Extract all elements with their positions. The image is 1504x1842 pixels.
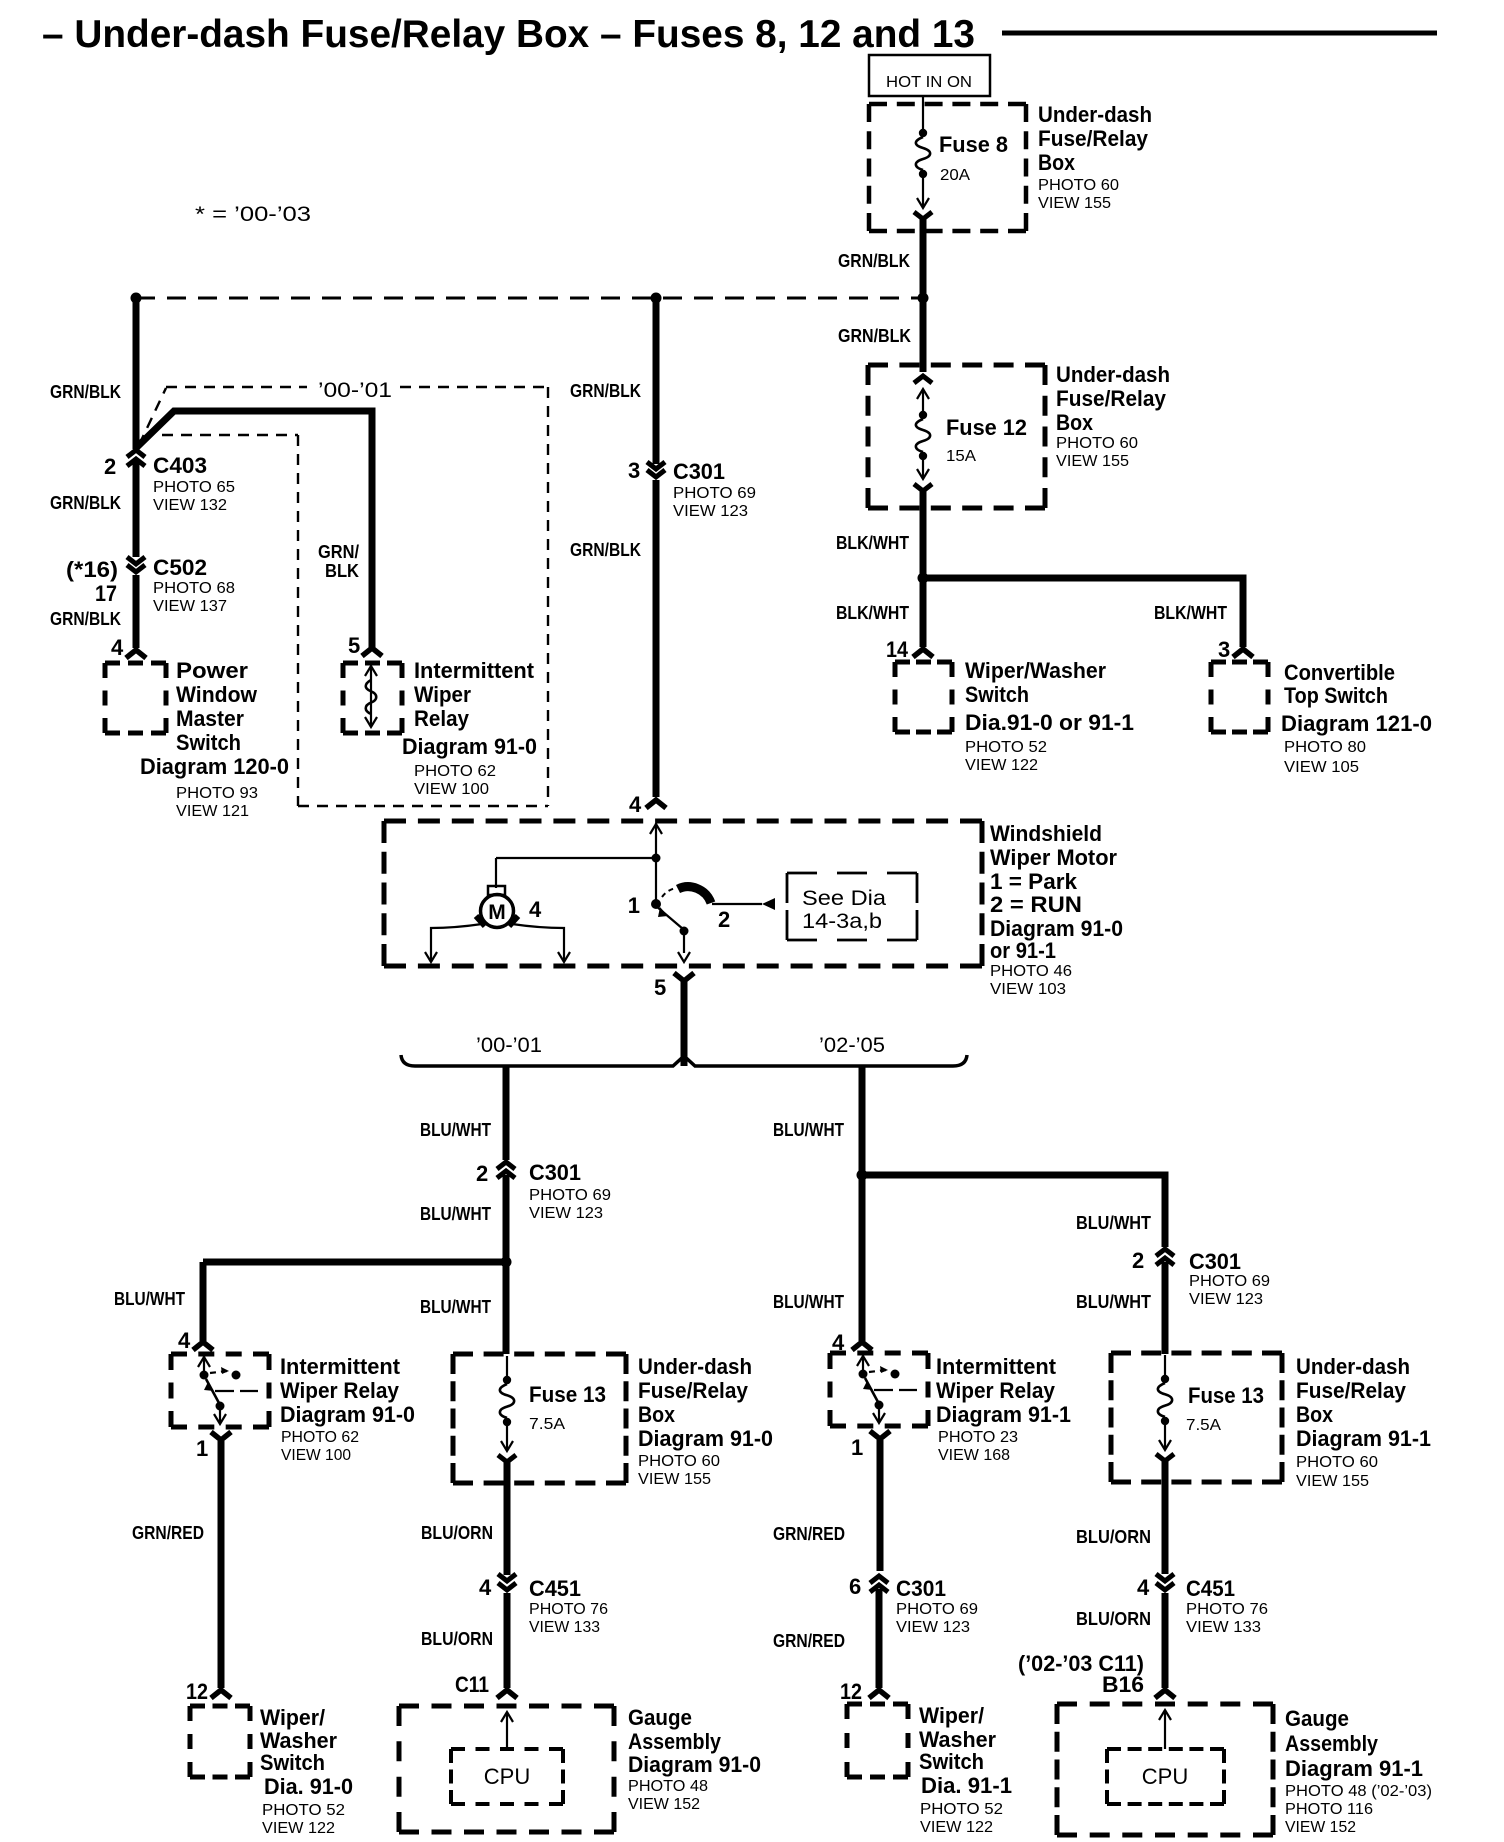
svg-text:VIEW 155: VIEW 155 <box>638 1471 711 1488</box>
svg-text:C403: C403 <box>153 453 207 478</box>
svg-text:Diagram 121-0: Diagram 121-0 <box>1281 711 1432 736</box>
connector C451 pin 4 (left) <box>479 1574 516 1600</box>
svg-text:5: 5 <box>654 975 666 1000</box>
svg-text:Fuse/Relay: Fuse/Relay <box>1056 386 1167 411</box>
svg-text:17: 17 <box>95 581 117 606</box>
svg-text:7.5A: 7.5A <box>1186 1417 1221 1434</box>
svg-text:Window: Window <box>176 682 258 707</box>
svg-text:PHOTO 46: PHOTO 46 <box>990 963 1072 980</box>
svg-text:C451: C451 <box>529 1576 581 1601</box>
fuse 13 (left) value labels <box>529 1382 606 1433</box>
svg-text:Box: Box <box>1296 1402 1334 1427</box>
see dia 14-3a,b box <box>787 873 917 940</box>
wire BLU/WHT branch to relay <box>203 1259 506 1266</box>
svg-text:GRN/RED: GRN/RED <box>773 1524 845 1544</box>
wire GRN/BLK label to relay <box>318 542 360 658</box>
power source label HOT IN ON <box>869 55 990 96</box>
svg-text:PHOTO 69: PHOTO 69 <box>896 1601 978 1618</box>
svg-text:C301: C301 <box>673 459 725 484</box>
pin 5 arrow into intermittent wiper relay <box>362 648 382 656</box>
connector C301 label (pin 3) <box>673 459 756 520</box>
svg-text:C301: C301 <box>529 1160 581 1185</box>
wire BLU/WHT split right branch <box>773 1066 862 1341</box>
svg-text:C502: C502 <box>153 555 207 580</box>
svg-text:C11: C11 <box>455 1672 489 1697</box>
svg-text:CPU: CPU <box>1142 1764 1188 1789</box>
under-dash fuse/relay box (fuse 13 left) dashed box <box>453 1354 626 1483</box>
fuse 12 value labels <box>946 415 1027 465</box>
svg-text:VIEW 152: VIEW 152 <box>628 1796 700 1813</box>
B16 arrow into gauge assembly B <box>1155 1690 1175 1698</box>
svg-text:VIEW 168: VIEW 168 <box>938 1447 1010 1464</box>
svg-text:1: 1 <box>851 1435 863 1460</box>
svg-text:Diagram 91-0: Diagram 91-0 <box>628 1752 761 1777</box>
svg-text:PHOTO 60: PHOTO 60 <box>1296 1454 1378 1471</box>
svg-text:1: 1 <box>196 1436 208 1461</box>
motor ground lead left <box>425 924 482 962</box>
svg-text:’02-’05: ’02-’05 <box>819 1034 885 1057</box>
intermittent wiper relay A switch symbol <box>198 1356 258 1424</box>
svg-text:12: 12 <box>186 1679 208 1704</box>
svg-text:PHOTO 69: PHOTO 69 <box>673 485 756 502</box>
connector C301 label (left branch) <box>529 1160 611 1222</box>
under-dash fuse/relay box (fuse 12) dashed box <box>868 365 1045 508</box>
svg-text:Dia. 91-0: Dia. 91-0 <box>264 1774 353 1799</box>
connector C502 label <box>153 555 235 615</box>
svg-text:Relay: Relay <box>414 706 470 731</box>
svg-text:4: 4 <box>479 1575 492 1600</box>
svg-text:GRN/BLK: GRN/BLK <box>570 540 641 560</box>
switch lower contact lead <box>656 906 690 962</box>
svg-text:VIEW 122: VIEW 122 <box>262 1820 335 1837</box>
svg-text:VIEW 155: VIEW 155 <box>1038 195 1111 212</box>
svg-text:VIEW 133: VIEW 133 <box>1186 1619 1261 1636</box>
C11 arrow into gauge assembly <box>497 1690 517 1698</box>
convertible top switch box <box>1211 662 1268 732</box>
switch arm lead to node 2 <box>712 898 775 932</box>
svg-text:VIEW 155: VIEW 155 <box>1056 453 1129 470</box>
svg-text:Wiper Relay: Wiper Relay <box>936 1378 1056 1403</box>
svg-text:GRN/RED: GRN/RED <box>132 1523 204 1543</box>
fuse 13 (right) value labels <box>1186 1383 1264 1434</box>
svg-text:Diagram 91-0: Diagram 91-0 <box>280 1402 415 1427</box>
svg-text:2 = RUN: 2 = RUN <box>990 892 1082 917</box>
pin 12 arrow into wiper/washer switch A <box>211 1690 231 1698</box>
wiper/washer switch B label <box>919 1703 1012 1836</box>
connector C451 label (left) <box>529 1576 608 1636</box>
svg-text:PHOTO 48 (’02-’03): PHOTO 48 (’02-’03) <box>1285 1783 1432 1800</box>
svg-text:Switch: Switch <box>965 682 1029 707</box>
svg-text:Fuse/Relay: Fuse/Relay <box>638 1378 749 1403</box>
svg-text:Top Switch: Top Switch <box>1284 683 1388 708</box>
pin 3 arrow into convertible top switch <box>1233 649 1253 657</box>
svg-text:– Under-dash Fuse/Relay Box –: – Under-dash Fuse/Relay Box – Fuses 8, 1… <box>42 13 975 56</box>
under-dash fuse/relay box (fuse 13 right) dashed box <box>1111 1353 1282 1482</box>
svg-text:M: M <box>488 901 506 924</box>
svg-text:VIEW 137: VIEW 137 <box>153 598 227 615</box>
wire GRN/BLK C301 to wiper motor pin 4 <box>570 480 656 817</box>
intermittent wiper relay B label <box>936 1354 1071 1464</box>
wire GRN/RED relay A to wiper washer switch <box>132 1441 221 1704</box>
intermittent wiper relay B box <box>830 1353 928 1426</box>
svg-text:CPU: CPU <box>484 1764 530 1789</box>
svg-text:PHOTO 52: PHOTO 52 <box>262 1802 345 1819</box>
svg-text:BLU/WHT: BLU/WHT <box>1076 1213 1151 1233</box>
svg-text:PHOTO 60: PHOTO 60 <box>638 1453 720 1470</box>
under-dash fuse/relay box (fuse 8) label <box>1038 102 1152 212</box>
svg-text:5: 5 <box>348 633 360 658</box>
svg-text:Diagram 91-0: Diagram 91-0 <box>402 734 537 759</box>
svg-text:Switch: Switch <box>919 1749 984 1774</box>
connector C301 pin 2 (left) <box>476 1161 515 1186</box>
svg-text:VIEW 122: VIEW 122 <box>920 1819 993 1836</box>
svg-text:Diagram 91-1: Diagram 91-1 <box>1296 1426 1431 1451</box>
fuse 13 (left) <box>498 1356 516 1462</box>
convertible top switch label <box>1281 660 1432 776</box>
svg-text:See Dia: See Dia <box>802 887 886 910</box>
svg-text:BLU/WHT: BLU/WHT <box>773 1292 844 1312</box>
svg-text:BLU/ORN: BLU/ORN <box>1076 1609 1151 1629</box>
svg-text:Master: Master <box>176 706 244 731</box>
svg-text:VIEW 123: VIEW 123 <box>1189 1291 1263 1308</box>
fuse 13 (right) <box>1156 1355 1174 1461</box>
wiper motor pin 5 wire <box>654 973 694 1066</box>
gauge assembly A box <box>399 1706 614 1832</box>
intermittent wiper relay coil symbol <box>365 666 377 727</box>
wire from HOT IN ON to fuse 8 <box>922 96 924 133</box>
junction node BLK/WHT <box>918 573 929 584</box>
svg-text:Diagram 91-1: Diagram 91-1 <box>1285 1756 1423 1781</box>
switch dashed travel arc <box>662 888 676 897</box>
svg-text:Fuse 13: Fuse 13 <box>529 1382 606 1407</box>
svg-text:BLU/WHT: BLU/WHT <box>420 1297 491 1317</box>
svg-text:VIEW 132: VIEW 132 <box>153 497 227 514</box>
svg-text:Under-dash: Under-dash <box>1296 1354 1410 1379</box>
gauge assembly B box <box>1057 1704 1273 1835</box>
svg-text:VIEW 123: VIEW 123 <box>896 1619 970 1636</box>
wire BLU/WHT C301 to fuse 13 <box>420 1175 506 1354</box>
svg-text:2: 2 <box>104 454 116 479</box>
svg-text:1: 1 <box>628 893 640 918</box>
svg-text:VIEW 122: VIEW 122 <box>965 757 1038 774</box>
junction node right <box>918 293 929 304</box>
wire GRN/BLK fuse 8 to bus <box>838 219 923 298</box>
svg-text:PHOTO 93: PHOTO 93 <box>176 785 258 802</box>
svg-text:Fuse 13: Fuse 13 <box>1188 1383 1264 1408</box>
pin 4 arrow into intermittent wiper relay A <box>193 1342 213 1350</box>
svg-text:GRN/BLK: GRN/BLK <box>50 382 121 402</box>
svg-text:Wiper Motor: Wiper Motor <box>990 845 1117 870</box>
intermittent wiper relay A box <box>171 1354 269 1427</box>
svg-text:PHOTO 76: PHOTO 76 <box>529 1601 608 1618</box>
svg-text:3: 3 <box>1218 637 1230 662</box>
svg-text:BLU/ORN: BLU/ORN <box>421 1629 493 1649</box>
svg-text:4: 4 <box>111 635 124 660</box>
wire BLU/ORN fuse 13 to C451 <box>421 1462 507 1575</box>
svg-text:PHOTO 60: PHOTO 60 <box>1056 435 1138 452</box>
svg-text:* = ’00-’03: * = ’00-’03 <box>195 203 311 226</box>
relay B pin 1 <box>851 1431 890 1460</box>
svg-text:PHOTO 62: PHOTO 62 <box>414 763 496 780</box>
connector C301 label (right) <box>1189 1249 1270 1308</box>
svg-text:C301: C301 <box>1189 1249 1241 1274</box>
svg-text:2: 2 <box>1132 1248 1144 1273</box>
svg-text:Switch: Switch <box>176 730 241 755</box>
fuse 12 <box>914 376 932 491</box>
svg-text:4: 4 <box>178 1328 191 1353</box>
svg-text:VIEW 123: VIEW 123 <box>529 1205 603 1222</box>
wiper/washer switch box (middle) <box>895 662 952 732</box>
wire GRN/BLK bus to C403 <box>50 298 136 449</box>
intermittent wiper relay B switch symbol <box>857 1355 917 1423</box>
svg-text:Fuse/Relay: Fuse/Relay <box>1296 1378 1407 1403</box>
wiper/washer switch A label <box>260 1705 353 1837</box>
svg-text:20A: 20A <box>940 167 970 184</box>
svg-text:PHOTO 69: PHOTO 69 <box>1189 1273 1270 1290</box>
park/run switch node 1 <box>628 858 661 918</box>
wire BLU/ORN C451 to gauge assembly B16 <box>1018 1593 1165 1697</box>
wire BLU/ORN C451 to gauge assembly C11 <box>421 1593 507 1697</box>
under-dash fuse/relay box (fuse 12) label <box>1056 362 1170 470</box>
svg-text:C301: C301 <box>896 1576 946 1601</box>
connector C403 pin 2 <box>104 450 145 479</box>
motor M <box>476 886 542 928</box>
svg-text:VIEW 123: VIEW 123 <box>673 503 748 520</box>
svg-text:BLU/ORN: BLU/ORN <box>421 1523 493 1543</box>
svg-text:C451: C451 <box>1186 1576 1235 1601</box>
fuse 8 <box>914 129 932 219</box>
power window master switch box <box>105 663 166 733</box>
svg-text:PHOTO 65: PHOTO 65 <box>153 479 235 496</box>
svg-text:BLK/WHT: BLK/WHT <box>836 603 909 623</box>
wiper/washer switch A box <box>190 1706 250 1777</box>
svg-text:VIEW 152: VIEW 152 <box>1285 1819 1356 1836</box>
svg-text:12: 12 <box>840 1679 862 1704</box>
svg-text:PHOTO 52: PHOTO 52 <box>920 1801 1003 1818</box>
connector C451 label (right) <box>1186 1576 1268 1636</box>
svg-text:’00-’01: ’00-’01 <box>318 379 392 402</box>
svg-text:1 = Park: 1 = Park <box>990 869 1078 894</box>
svg-text:2: 2 <box>718 907 730 932</box>
power window master switch label <box>140 658 289 820</box>
wiper motor internal feed wire <box>496 823 662 888</box>
intermittent wiper relay A label <box>280 1354 415 1464</box>
svg-text:Under-dash: Under-dash <box>1056 362 1170 387</box>
svg-text:BLK: BLK <box>325 561 359 581</box>
wiper/washer switch label (middle) <box>965 658 1134 774</box>
wire GRN/BLK bus to fuse 12 <box>838 298 923 372</box>
svg-text:Box: Box <box>1056 410 1094 435</box>
wire BLU/WHT split to C301 pin 2 <box>420 1066 506 1160</box>
svg-text:14-3a,b: 14-3a,b <box>802 910 882 933</box>
svg-text:Windshield: Windshield <box>990 821 1102 846</box>
connector C301 pin 3 <box>628 458 665 483</box>
svg-text:Dia.91-0 or 91-1: Dia.91-0 or 91-1 <box>965 710 1134 735</box>
pin 12 arrow into wiper/washer switch B <box>869 1690 889 1698</box>
connector C301 pin 2 (right) <box>1132 1248 1174 1273</box>
junction node left branch <box>501 1257 512 1268</box>
wire BLU/WHT branch to far right <box>862 1175 1165 1247</box>
svg-text:(*16): (*16) <box>66 557 118 582</box>
svg-text:Wiper/: Wiper/ <box>919 1703 984 1728</box>
svg-text:BLU/ORN: BLU/ORN <box>1076 1527 1151 1547</box>
CPU B box <box>1107 1749 1224 1804</box>
gauge assembly A internal arrow <box>501 1712 513 1749</box>
svg-text:Diagram 91-1: Diagram 91-1 <box>936 1402 1071 1427</box>
svg-text:BLU/WHT: BLU/WHT <box>420 1204 491 1224</box>
svg-text:3: 3 <box>628 458 640 483</box>
svg-text:Under-dash: Under-dash <box>638 1354 752 1379</box>
wire GRN/BLK C403 to C502 <box>50 462 136 557</box>
fuse 8 value labels <box>939 132 1008 184</box>
svg-text:PHOTO 76: PHOTO 76 <box>1186 1601 1268 1618</box>
svg-text:VIEW 155: VIEW 155 <box>1296 1473 1369 1490</box>
svg-text:BLU/WHT: BLU/WHT <box>773 1120 844 1140</box>
svg-text:BLK/WHT: BLK/WHT <box>1154 603 1227 623</box>
svg-text:GRN/RED: GRN/RED <box>773 1631 845 1651</box>
svg-text:Intermittent: Intermittent <box>280 1354 401 1379</box>
svg-text:PHOTO 23: PHOTO 23 <box>938 1429 1018 1446</box>
junction node right branch <box>857 1170 868 1181</box>
svg-text:Fuse 12: Fuse 12 <box>946 415 1027 440</box>
under-dash fuse/relay box (fuse 13 left) label <box>638 1354 773 1488</box>
svg-text:BLU/WHT: BLU/WHT <box>1076 1292 1151 1312</box>
svg-text:PHOTO 48: PHOTO 48 <box>628 1778 708 1795</box>
svg-text:GRN/BLK: GRN/BLK <box>50 609 121 629</box>
wire BLU/ORN fuse 13 right to C451 <box>1076 1461 1165 1574</box>
wire GRN/BLK bus to C301 pin 3 <box>570 298 656 464</box>
svg-text:VIEW 121: VIEW 121 <box>176 803 249 820</box>
junction node left <box>131 293 142 304</box>
svg-text:VIEW 100: VIEW 100 <box>281 1447 351 1464</box>
svg-text:PHOTO 62: PHOTO 62 <box>281 1429 359 1446</box>
year split bar <box>401 1055 967 1066</box>
title rule <box>1002 31 1437 36</box>
svg-text:14: 14 <box>886 637 909 662</box>
connector C301 label (pin 6) <box>896 1576 978 1636</box>
connector C502 pins (*16)/17 <box>66 557 145 606</box>
switch arm (thick arc) <box>678 887 711 903</box>
svg-text:HOT IN ON: HOT IN ON <box>886 74 972 91</box>
under-dash fuse/relay box (fuse 8) dashed box <box>869 104 1026 231</box>
gauge assembly B label <box>1285 1706 1432 1836</box>
svg-text:Diagram 120-0: Diagram 120-0 <box>140 754 289 779</box>
svg-text:7.5A: 7.5A <box>529 1416 565 1433</box>
svg-text:Wiper/Washer: Wiper/Washer <box>965 658 1106 683</box>
gauge assembly B internal arrow <box>1159 1710 1171 1749</box>
svg-text:Fuse 8: Fuse 8 <box>939 132 1008 157</box>
svg-text:GRN/BLK: GRN/BLK <box>50 493 121 513</box>
wire BLU/WHT C301 to fuse 13 right <box>1076 1262 1165 1354</box>
svg-text:PHOTO 116: PHOTO 116 <box>1285 1801 1373 1818</box>
svg-text:Assembly: Assembly <box>628 1729 722 1754</box>
gauge assembly A label <box>628 1705 761 1813</box>
svg-text:PHOTO 68: PHOTO 68 <box>153 580 235 597</box>
svg-text:2: 2 <box>476 1161 488 1186</box>
svg-text:Wiper/: Wiper/ <box>260 1705 325 1730</box>
BLK/WHT label right <box>1154 603 1230 662</box>
dashed bus wire <box>136 297 923 300</box>
svg-text:Gauge: Gauge <box>1285 1706 1349 1731</box>
svg-text:Wiper Relay: Wiper Relay <box>280 1378 400 1403</box>
svg-text:BLU/WHT: BLU/WHT <box>420 1120 491 1140</box>
CPU A box <box>451 1749 563 1804</box>
svg-text:PHOTO 80: PHOTO 80 <box>1284 739 1366 756</box>
wire GRN/RED relay B to C301 pin 6 <box>773 1440 880 1571</box>
svg-text:Fuse/Relay: Fuse/Relay <box>1038 126 1149 151</box>
svg-text:4: 4 <box>1137 1575 1150 1600</box>
svg-text:PHOTO 60: PHOTO 60 <box>1038 177 1119 194</box>
pin 14 arrow into wiper/washer switch <box>913 649 933 657</box>
pin 4 arrow into windshield wiper motor <box>646 800 666 808</box>
pin 4 arrow into power window master switch <box>126 650 146 658</box>
svg-text:GRN/BLK: GRN/BLK <box>838 326 911 346</box>
connector C301 pin 6 <box>849 1574 888 1599</box>
under-dash fuse/relay box (fuse 13 right) label <box>1296 1354 1431 1490</box>
svg-text:Intermittent: Intermittent <box>414 658 535 683</box>
wire GRN/BLK C502 to power window master switch pin 4 <box>50 575 136 660</box>
svg-text:Convertible: Convertible <box>1284 660 1395 685</box>
svg-text:BLK/WHT: BLK/WHT <box>836 533 909 553</box>
svg-text:GRN/BLK: GRN/BLK <box>570 381 641 401</box>
svg-text:or 91-1: or 91-1 <box>990 938 1056 963</box>
svg-text:Diagram 91-0: Diagram 91-0 <box>638 1426 773 1451</box>
wire BLU/WHT down to relay pin 4 <box>114 1262 203 1353</box>
svg-text:BLU/WHT: BLU/WHT <box>114 1289 185 1309</box>
wire branch diagonal to intermittent wiper relay <box>136 411 372 648</box>
svg-text:4: 4 <box>629 792 642 817</box>
svg-text:VIEW 105: VIEW 105 <box>1284 759 1359 776</box>
relay A pin 1 <box>196 1432 231 1461</box>
svg-text:Under-dash: Under-dash <box>1038 102 1152 127</box>
wire BLK/WHT fuse 12 to junction <box>836 491 923 578</box>
svg-text:VIEW 133: VIEW 133 <box>529 1619 600 1636</box>
svg-text:GRN/: GRN/ <box>318 542 359 562</box>
svg-text:Gauge: Gauge <box>628 1705 692 1730</box>
svg-text:Intermittent: Intermittent <box>936 1354 1057 1379</box>
svg-text:Switch: Switch <box>260 1750 325 1775</box>
dashed region '00-'01 <box>139 387 548 806</box>
svg-text:6: 6 <box>849 1574 861 1599</box>
svg-text:’00-’01: ’00-’01 <box>476 1034 542 1057</box>
motor ground lead right <box>512 924 570 962</box>
svg-text:Box: Box <box>1038 150 1076 175</box>
svg-text:Dia. 91-1: Dia. 91-1 <box>921 1773 1012 1798</box>
wire BLK/WHT to wiper washer switch pin 14 <box>836 578 923 662</box>
svg-text:Assembly: Assembly <box>1285 1731 1379 1756</box>
junction node middle <box>651 293 662 304</box>
svg-text:Power: Power <box>176 658 248 683</box>
intermittent wiper relay (coil) box <box>343 663 402 733</box>
svg-text:VIEW 100: VIEW 100 <box>414 781 489 798</box>
intermittent wiper relay label (top) <box>402 658 537 798</box>
windshield wiper motor box <box>384 821 982 966</box>
svg-text:4: 4 <box>529 897 542 922</box>
svg-text:PHOTO 69: PHOTO 69 <box>529 1187 611 1204</box>
connector C403 label <box>153 453 235 514</box>
wire GRN/RED C301 to wiper washer switch B <box>773 1589 879 1704</box>
svg-text:GRN/BLK: GRN/BLK <box>838 251 910 271</box>
connector C451 pin 4 (right) <box>1137 1574 1174 1600</box>
svg-text:VIEW 103: VIEW 103 <box>990 981 1066 998</box>
svg-text:15A: 15A <box>946 448 976 465</box>
svg-text:PHOTO 52: PHOTO 52 <box>965 739 1047 756</box>
svg-text:Box: Box <box>638 1402 676 1427</box>
svg-text:Wiper: Wiper <box>414 682 471 707</box>
windshield wiper motor label <box>990 821 1123 998</box>
svg-text:B16: B16 <box>1102 1672 1144 1697</box>
wire BLK/WHT branch to convertible top switch <box>923 578 1243 647</box>
